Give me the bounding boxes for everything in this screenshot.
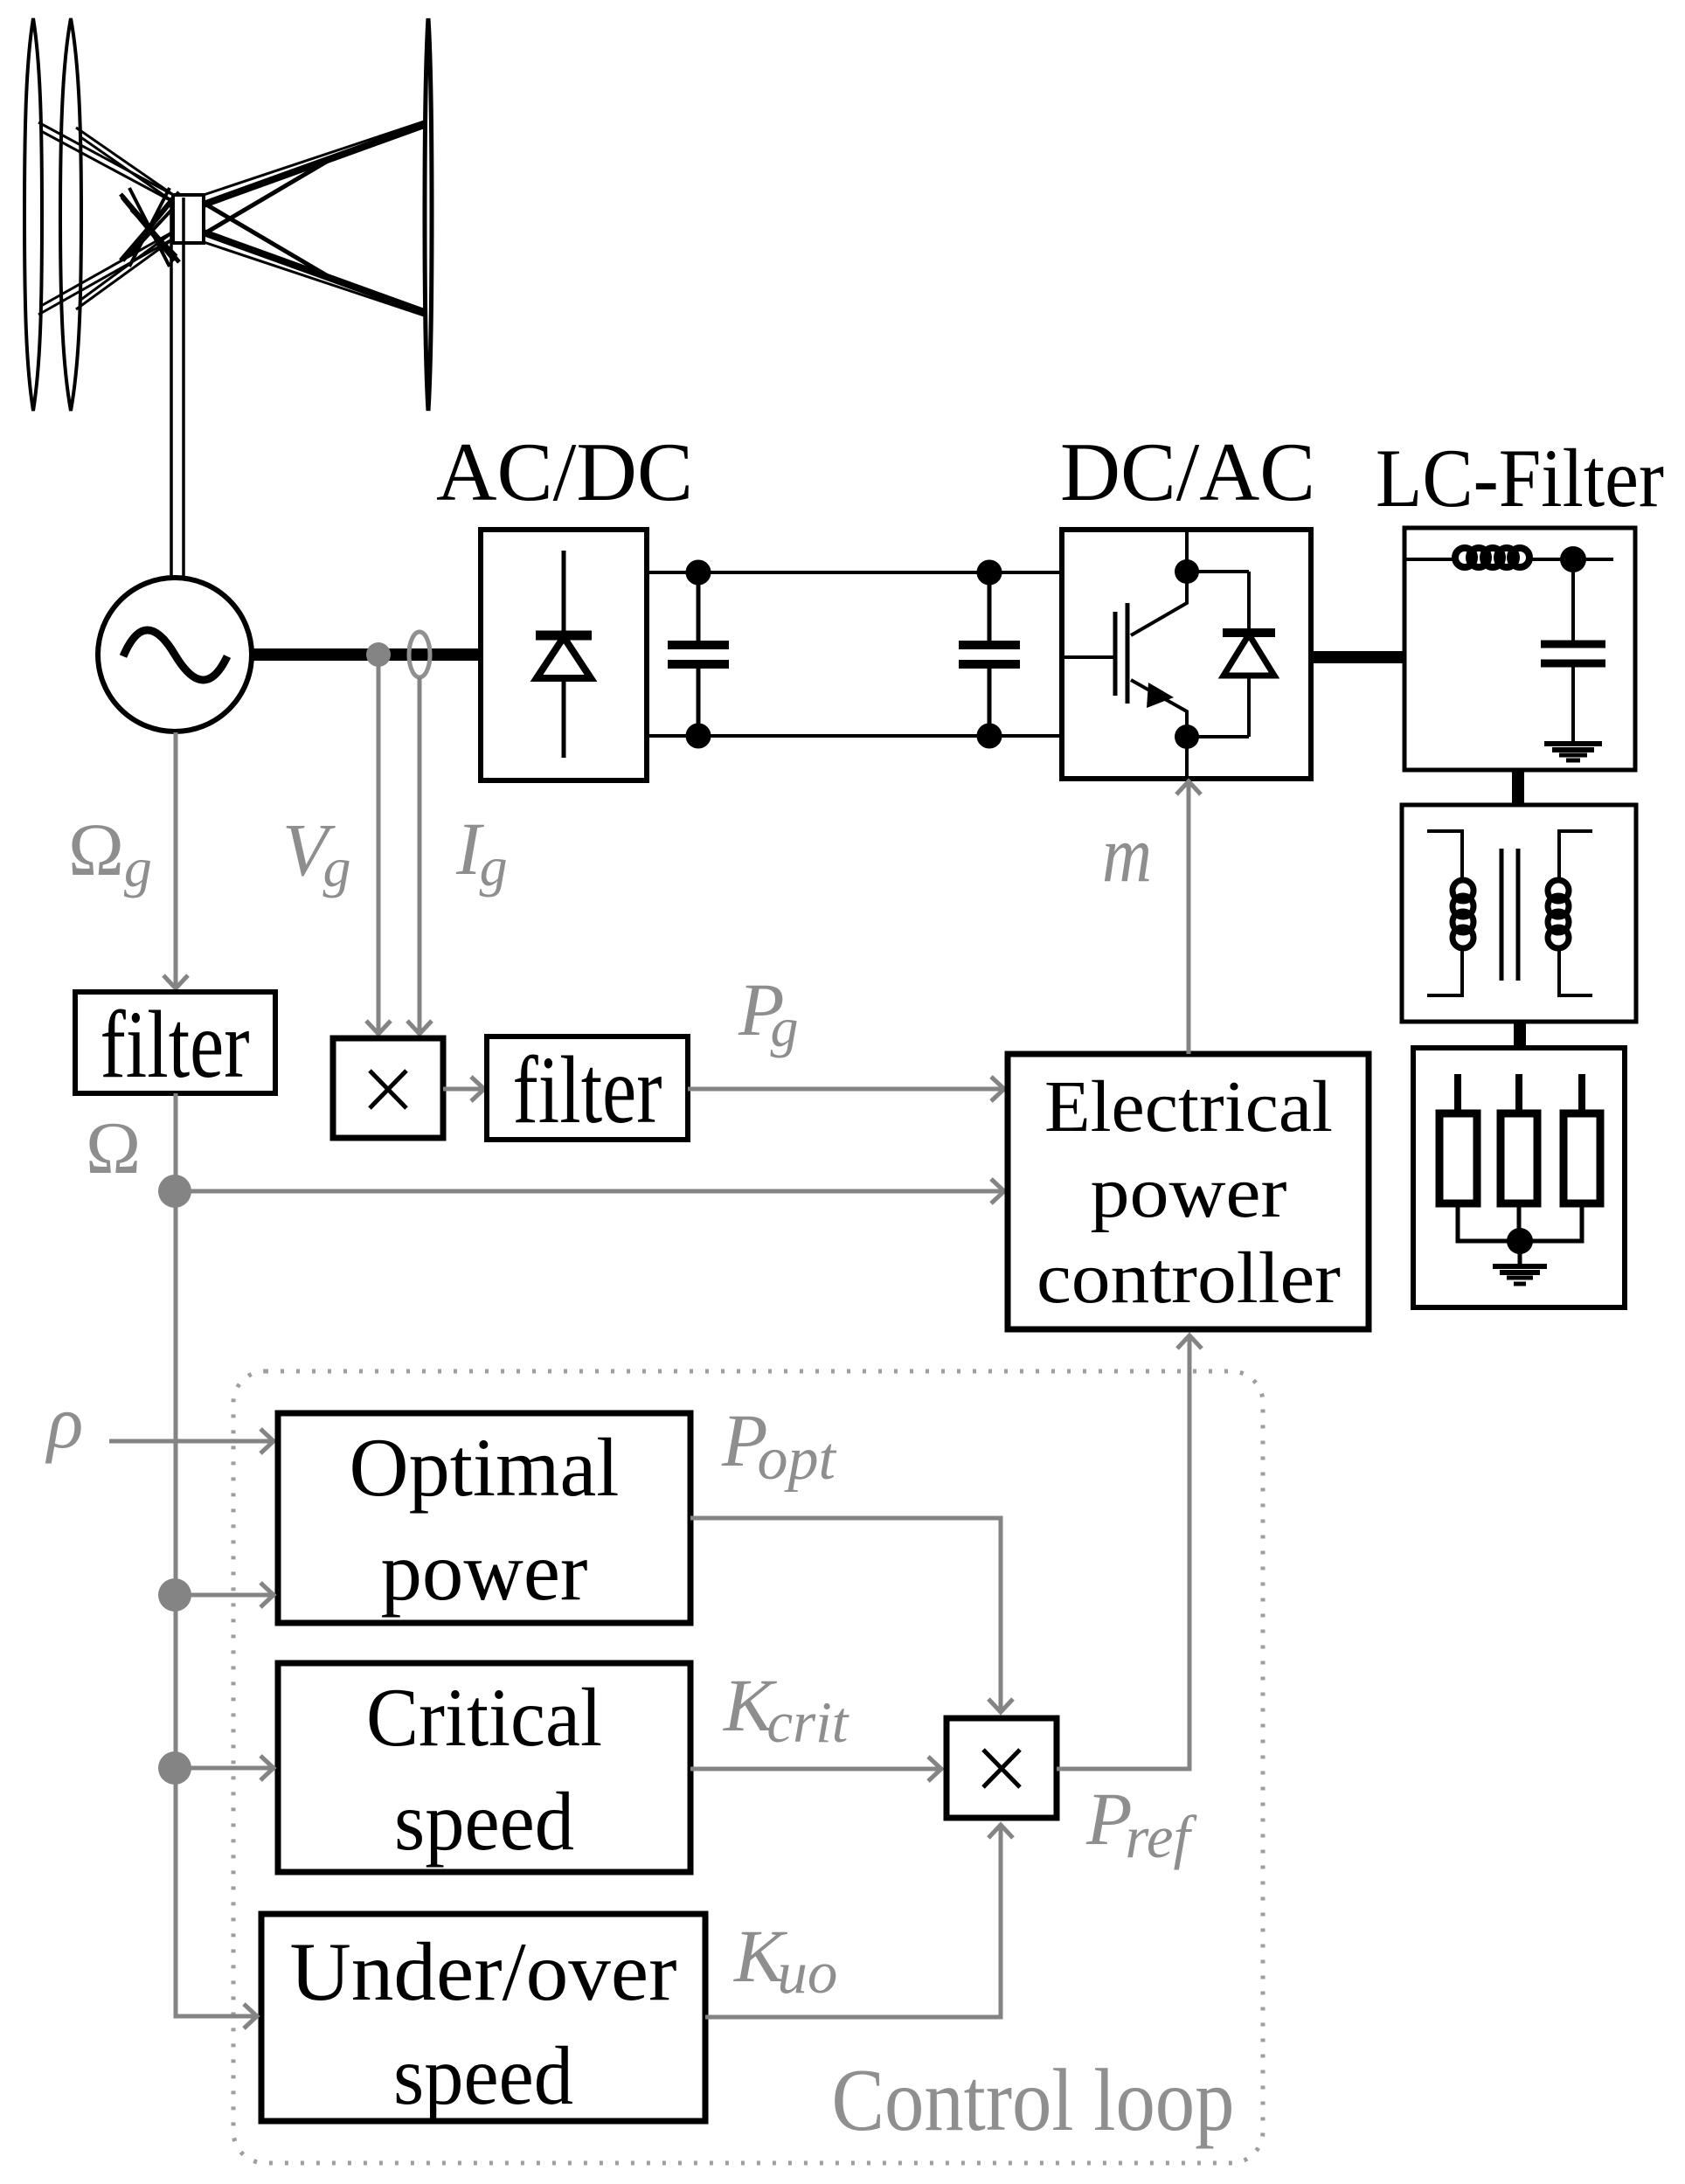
transformer primary winding [1427, 831, 1474, 995]
IGBT Q1 in inverter [1062, 530, 1199, 779]
svg-text:LC-Filter: LC-Filter [1376, 432, 1664, 524]
node measurement tap (gray) [366, 642, 391, 667]
capacitor C1 [668, 560, 729, 748]
svg-text:Electrical: Electrical [1044, 1066, 1333, 1147]
filter box 1 [75, 992, 275, 1093]
wire m controller to inverter (gray) [1187, 781, 1191, 1054]
load box (3-phase resistors) [1413, 1048, 1625, 1307]
svg-text:controller: controller [1037, 1238, 1341, 1319]
inductor L1 [1404, 548, 1613, 567]
svg-text:power: power [381, 1525, 588, 1618]
svg-text:m: m [1102, 809, 1152, 898]
wire Omega_g generator speed (gray) [174, 732, 178, 988]
resistor R1 [1454, 1074, 1461, 1113]
transformer secondary winding [1548, 831, 1592, 995]
control loop dotted box [233, 1371, 1263, 2163]
turbine blade left inner [60, 18, 81, 411]
turbine strut lower-right thick [204, 232, 426, 313]
LC filter box [1404, 528, 1635, 770]
DC bus bottom wire [647, 734, 1062, 738]
node Omega junction 2 [158, 1578, 191, 1612]
wire Omega to under/over speed (gray) [176, 2014, 256, 2016]
node star point [1507, 1228, 1533, 1254]
filter box 2 [487, 1037, 688, 1140]
node LC output [1560, 546, 1586, 572]
wire transformer to load [1514, 1022, 1526, 1049]
generator G [98, 578, 252, 731]
inverter DC/AC box [1062, 530, 1311, 779]
current sensor ring [409, 632, 430, 677]
DC bus top wire [647, 571, 1062, 574]
svg-text:power: power [1091, 1152, 1287, 1233]
wire Omega to critical speed (gray) [175, 1766, 273, 1771]
multiplier X2 [947, 1718, 1057, 1818]
under/over speed box [261, 1914, 705, 2121]
wire Omega to controller (gray) [175, 1189, 1003, 1194]
turbine strut lower-left group [38, 238, 175, 315]
ground in LC filter [1544, 744, 1602, 760]
diode D1 in rectifier [536, 551, 592, 758]
wind turbine rotor [24, 18, 432, 577]
turbine hub [173, 195, 204, 243]
wire Omega to optimal power (gray) [175, 1593, 273, 1598]
wire rho to optimal power (gray) [109, 1439, 273, 1444]
svg-text:Control loop: Control loop [832, 2051, 1235, 2150]
turbine strut upper-right thick [204, 124, 426, 205]
turbine blade left outer [24, 18, 42, 411]
node Omega junction 3 [158, 1751, 191, 1785]
turbine X brace left cluster [122, 197, 175, 260]
turbine mast [170, 198, 173, 577]
wire P_g to controller (gray) [688, 1087, 1003, 1092]
capacitor C3 in LC filter [1541, 559, 1605, 743]
transformer core [1500, 849, 1504, 981]
wire generator to AC/DC (3-phase bus) [252, 648, 482, 661]
svg-text:Critical: Critical [366, 1671, 602, 1764]
wire multiplier to filter2 (gray) [443, 1087, 483, 1092]
turbine strut upper-left group [38, 122, 175, 196]
wire resistors to star point [1458, 1203, 1582, 1241]
svg-text:Under/over: Under/over [290, 1925, 677, 2018]
wire K_uo to multiplier X2 (gray) [705, 1825, 1001, 2017]
rectifier AC/DC box [481, 530, 647, 780]
turbine X brace right [206, 205, 334, 280]
svg-text:speed: speed [394, 1775, 574, 1868]
node Omega junction 1 [158, 1175, 191, 1208]
wire P_opt to multiplier X2 (gray) [690, 1518, 1001, 1712]
svg-text:Optimal: Optimal [350, 1421, 620, 1514]
svg-text:speed: speed [393, 2029, 573, 2122]
svg-text:filter: filter [513, 1037, 662, 1143]
svg-text:AC/DC: AC/DC [436, 426, 693, 518]
wire Omega vertical trunk (gray) [174, 1093, 178, 2016]
ground at star point [1493, 1241, 1547, 1284]
wire V_g (gray) [377, 664, 381, 1034]
capacitor C2 [959, 560, 1020, 748]
wire inverter to LC filter [1311, 651, 1405, 663]
multiplier X1 [333, 1038, 443, 1138]
resistor R3 [1578, 1074, 1585, 1113]
svg-text:filter: filter [101, 991, 250, 1098]
turbine blade right [425, 18, 432, 411]
svg-text:DC/AC: DC/AC [1060, 426, 1315, 518]
wire P_ref multiplier X2 to controller (gray) [1057, 1335, 1189, 1769]
wire I_g (gray) [418, 677, 422, 1034]
electrical power controller box [1008, 1054, 1369, 1329]
diode D2 antiparallel in inverter [1187, 572, 1275, 737]
critical speed box [278, 1663, 690, 1872]
svg-text:Ω: Ω [86, 1107, 141, 1189]
wire LC filter to transformer [1512, 770, 1524, 805]
svg-text:ρ: ρ [45, 1380, 83, 1464]
transformer T1 box [1402, 805, 1636, 1022]
optimal power box [278, 1413, 690, 1623]
wire K_crit to multiplier X2 (gray) [690, 1767, 940, 1771]
resistor R2 [1515, 1074, 1522, 1113]
